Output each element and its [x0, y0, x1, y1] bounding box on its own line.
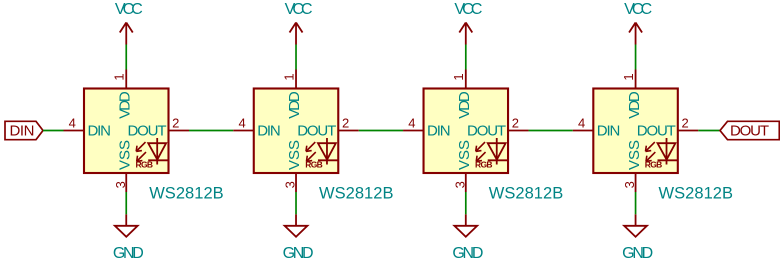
svg-text:DOUT: DOUT — [467, 122, 506, 139]
svg-text:GND: GND — [452, 245, 483, 262]
svg-text:1: 1 — [112, 73, 127, 80]
global label DOUT — [720, 121, 779, 139]
svg-text:RGB: RGB — [475, 159, 493, 169]
pin 3 VSS of D4 — [622, 173, 637, 192]
svg-text:VSS: VSS — [456, 140, 473, 170]
svg-text:VCC: VCC — [115, 1, 143, 18]
pin 4 DIN of D2 — [233, 116, 254, 131]
svg-text:2: 2 — [342, 116, 349, 131]
wire VCC to pin 1 of D3 — [465, 45, 467, 70]
pin 1 VDD of D2 — [281, 70, 296, 89]
svg-text:DOUT: DOUT — [637, 122, 676, 139]
wire DOUT of D3 to DIN of D4 — [529, 130, 573, 132]
wire VCC to pin 1 of D2 — [295, 45, 297, 70]
svg-text:4: 4 — [578, 116, 585, 131]
LED graphic inside D3 — [476, 138, 508, 165]
global label DIN — [5, 121, 43, 139]
svg-text:1: 1 — [451, 73, 466, 80]
svg-text:RGB: RGB — [305, 159, 323, 169]
svg-text:VCC: VCC — [624, 1, 652, 18]
svg-text:DIN: DIN — [427, 122, 451, 139]
wire pin 3 of D1 to GND — [125, 192, 127, 214]
svg-text:3: 3 — [283, 181, 298, 188]
svg-text:GND: GND — [283, 245, 314, 262]
IC D3 WS2812B body — [424, 89, 509, 174]
LED graphic inside D2 — [306, 138, 338, 165]
wire DOUT of D2 to DIN of D3 — [359, 130, 403, 132]
pin 3 VSS of D2 — [283, 173, 298, 192]
svg-text:DIN: DIN — [10, 122, 35, 139]
pin 2 DOUT of D1 — [169, 116, 190, 131]
svg-text:DOUT: DOUT — [128, 122, 167, 139]
svg-text:VDD: VDD — [116, 91, 133, 119]
power symbol VCC above D4 — [629, 23, 642, 45]
pin 1 VDD of D3 — [451, 70, 466, 89]
svg-text:2: 2 — [681, 116, 688, 131]
svg-text:DIN: DIN — [597, 122, 621, 139]
svg-text:WS2812B: WS2812B — [149, 184, 224, 202]
svg-text:VSS: VSS — [626, 140, 643, 170]
LED graphic inside D4 — [646, 138, 678, 165]
wire pin 3 of D4 to GND — [635, 192, 637, 214]
svg-text:4: 4 — [238, 116, 245, 131]
power symbol VCC above D1 — [120, 23, 133, 45]
svg-text:GND: GND — [622, 245, 653, 262]
svg-text:VSS: VSS — [116, 140, 133, 170]
IC D4 WS2812B body — [593, 89, 678, 174]
wire DIN label to D1 pin 4 — [43, 130, 64, 132]
svg-text:VSS: VSS — [286, 140, 303, 170]
pin 2 DOUT of D3 — [508, 116, 528, 131]
svg-text:WS2812B: WS2812B — [489, 184, 564, 202]
svg-text:3: 3 — [113, 181, 128, 188]
svg-text:VDD: VDD — [626, 91, 643, 119]
svg-text:WS2812B: WS2812B — [659, 184, 734, 202]
ground symbol below D4 — [624, 214, 647, 237]
svg-text:3: 3 — [452, 181, 467, 188]
pin 4 DIN of D1 — [64, 116, 85, 131]
svg-text:DOUT: DOUT — [297, 122, 336, 139]
wire pin 3 of D3 to GND — [465, 192, 467, 214]
pin 1 VDD of D4 — [621, 70, 636, 89]
svg-text:1: 1 — [621, 73, 636, 80]
svg-text:4: 4 — [408, 116, 415, 131]
pin 2 DOUT of D2 — [338, 116, 359, 131]
LED graphic inside D1 — [136, 138, 168, 165]
pin 4 DIN of D3 — [403, 116, 424, 131]
svg-text:VCC: VCC — [285, 1, 313, 18]
wire pin 3 of D2 to GND — [295, 192, 297, 214]
wire DOUT of D1 to DIN of D2 — [189, 130, 233, 132]
IC D1 WS2812B body — [84, 89, 169, 174]
svg-text:3: 3 — [622, 181, 637, 188]
svg-text:DOUT: DOUT — [730, 122, 769, 139]
power symbol VCC above D2 — [290, 23, 303, 45]
IC D2 WS2812B body — [254, 89, 339, 174]
ground symbol below D1 — [115, 214, 138, 237]
pin 3 VSS of D3 — [452, 173, 467, 192]
ground symbol below D2 — [285, 214, 308, 237]
svg-text:WS2812B: WS2812B — [319, 184, 394, 202]
wire VCC to pin 1 of D4 — [635, 45, 637, 70]
svg-text:DIN: DIN — [88, 122, 112, 139]
svg-text:VCC: VCC — [454, 1, 482, 18]
svg-text:RGB: RGB — [645, 159, 663, 169]
svg-text:2: 2 — [172, 116, 179, 131]
svg-text:GND: GND — [113, 245, 144, 262]
pin 1 VDD of D1 — [112, 70, 127, 89]
svg-text:4: 4 — [69, 116, 76, 131]
svg-text:RGB: RGB — [136, 159, 154, 169]
svg-text:VDD: VDD — [286, 91, 303, 119]
power symbol VCC above D3 — [459, 23, 472, 45]
ground symbol below D3 — [454, 214, 477, 237]
pin 2 DOUT of D4 — [678, 116, 699, 131]
pin 3 VSS of D1 — [113, 173, 128, 192]
wire D4 pin 2 to DOUT label — [698, 130, 720, 132]
svg-text:VDD: VDD — [456, 91, 473, 119]
wire VCC to pin 1 of D1 — [125, 45, 127, 70]
svg-text:2: 2 — [512, 116, 519, 131]
svg-text:1: 1 — [281, 73, 296, 80]
svg-text:DIN: DIN — [257, 122, 281, 139]
pin 4 DIN of D4 — [573, 116, 594, 131]
